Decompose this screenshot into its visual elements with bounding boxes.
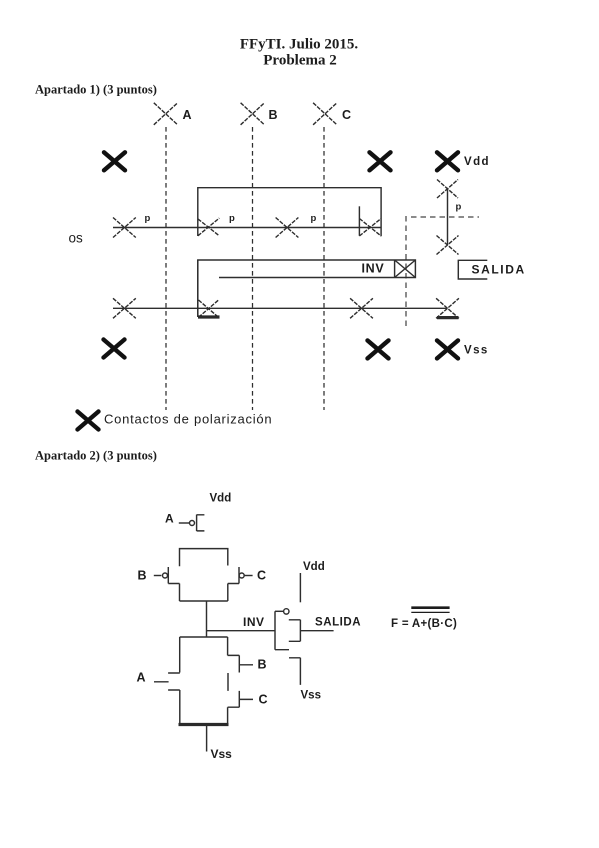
svg-text:B: B (258, 658, 267, 672)
svg-text:Vdd: Vdd (210, 493, 232, 505)
svg-text:os: os (69, 231, 84, 246)
svg-text:Apartado 2) (3 puntos): Apartado 2) (3 puntos) (35, 449, 157, 463)
svg-text:F = A+(B·C): F = A+(B·C) (391, 618, 457, 630)
svg-text:INV: INV (362, 262, 385, 276)
svg-text:p: p (145, 213, 151, 224)
svg-text:Problema 2: Problema 2 (263, 53, 336, 69)
svg-text:p: p (229, 213, 235, 224)
svg-text:FFyTI. Julio 2015.: FFyTI. Julio 2015. (240, 37, 359, 53)
svg-text:INV: INV (243, 615, 265, 629)
svg-text:C: C (342, 108, 351, 122)
svg-text:A: A (137, 671, 146, 685)
svg-text:Vss: Vss (211, 747, 233, 761)
svg-text:p: p (456, 201, 462, 212)
svg-text:Vdd: Vdd (464, 156, 490, 168)
svg-text:Vss: Vss (464, 345, 489, 357)
svg-text:SALIDA: SALIDA (315, 617, 361, 629)
svg-text:Vdd: Vdd (303, 561, 325, 573)
svg-text:B: B (138, 569, 147, 583)
svg-text:A: A (183, 108, 192, 122)
svg-text:Vss: Vss (301, 690, 321, 702)
svg-text:A: A (165, 512, 174, 526)
svg-text:C: C (259, 693, 268, 707)
svg-text:C: C (257, 569, 266, 583)
svg-text:B: B (269, 108, 278, 122)
svg-text:SALIDA: SALIDA (472, 263, 526, 277)
svg-text:Contactos de polarización: Contactos de polarización (104, 412, 272, 427)
svg-text:p: p (311, 213, 317, 224)
svg-text:Apartado 1) (3 puntos): Apartado 1) (3 puntos) (35, 83, 157, 97)
